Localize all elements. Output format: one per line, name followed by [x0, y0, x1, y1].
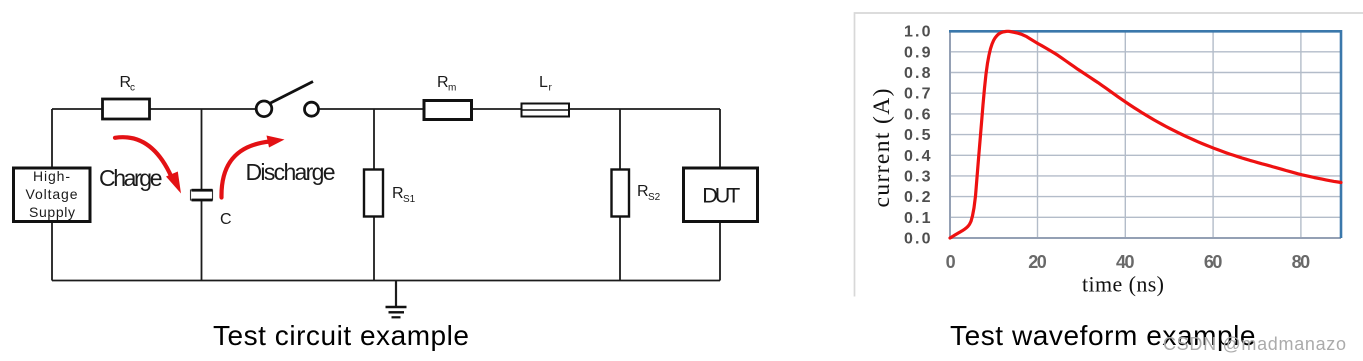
svg-text:R: R — [437, 74, 449, 91]
svg-text:0.9: 0.9 — [904, 44, 931, 61]
svg-text:60: 60 — [1204, 252, 1223, 272]
svg-text:0.4: 0.4 — [904, 148, 931, 165]
svg-text:DUT: DUT — [702, 184, 740, 208]
svg-text:0.0: 0.0 — [904, 231, 931, 248]
svg-text:r: r — [549, 83, 553, 94]
svg-text:L: L — [539, 74, 548, 91]
svg-text:R: R — [392, 185, 404, 202]
svg-text:S1: S1 — [403, 194, 416, 205]
svg-text:0.1: 0.1 — [904, 210, 931, 227]
svg-text:R: R — [637, 183, 649, 200]
svg-text:20: 20 — [1028, 252, 1047, 272]
svg-text:Test circuit example: Test circuit example — [213, 320, 469, 351]
svg-text:80: 80 — [1292, 252, 1311, 272]
svg-text:0.3: 0.3 — [904, 169, 931, 186]
svg-text:CSDN @madmanazo: CSDN @madmanazo — [1163, 334, 1346, 354]
svg-text:0.5: 0.5 — [904, 127, 931, 144]
svg-text:Discharge: Discharge — [246, 159, 336, 185]
svg-text:Charge: Charge — [99, 165, 163, 191]
svg-text:0.8: 0.8 — [904, 65, 931, 82]
svg-text:S2: S2 — [648, 192, 661, 203]
svg-text:c: c — [130, 83, 135, 94]
svg-text:Voltage: Voltage — [26, 186, 78, 202]
svg-text:m: m — [448, 83, 456, 94]
svg-text:1.0: 1.0 — [904, 24, 931, 41]
svg-text:0: 0 — [946, 252, 956, 272]
svg-text:40: 40 — [1116, 252, 1135, 272]
svg-text:current (A): current (A) — [869, 89, 895, 208]
svg-text:High-: High- — [33, 168, 70, 184]
svg-text:0.7: 0.7 — [904, 86, 931, 103]
svg-text:0.2: 0.2 — [904, 189, 931, 206]
svg-text:Supply: Supply — [29, 204, 75, 220]
svg-text:0.6: 0.6 — [904, 106, 931, 123]
svg-text:C: C — [220, 211, 232, 228]
svg-text:time (ns): time (ns) — [1082, 272, 1164, 297]
